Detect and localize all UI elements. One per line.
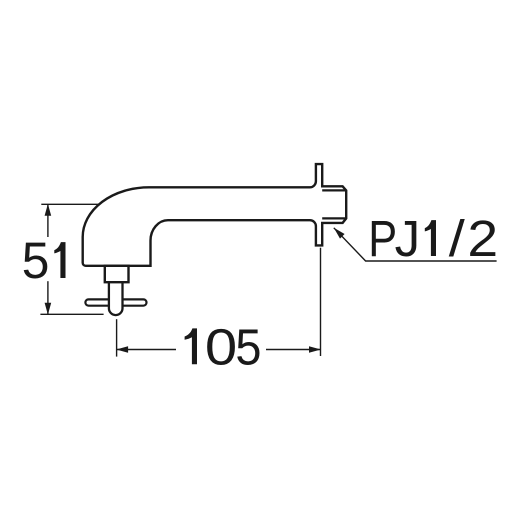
svg-text:J: J: [395, 210, 421, 267]
cross handle bar: [85, 299, 146, 305]
svg-text:2: 2: [467, 211, 498, 268]
label 105 digit 1: [185, 328, 197, 364]
dimension line 51 lower segment: [47, 281, 49, 314]
arrow 105 left: [116, 346, 128, 353]
svg-text:5: 5: [235, 320, 261, 376]
svg-text:5: 5: [22, 231, 50, 289]
arrow 105 right: [309, 346, 321, 353]
extension line bottom of 51: [40, 313, 103, 315]
extension line left of 105: [116, 319, 118, 356]
label thread size digit 1: [425, 220, 436, 256]
svg-text:P: P: [368, 211, 397, 268]
thread bevel bottom line: [322, 217, 346, 219]
dimension line 105 right segment: [266, 349, 321, 351]
spout body outline: [83, 164, 347, 266]
outlet tube: [109, 281, 123, 315]
leader arrowhead: [334, 228, 345, 239]
extension line right of 105: [320, 248, 322, 356]
thread bevel top line: [322, 189, 346, 191]
svg-text:0: 0: [205, 318, 237, 376]
dimension line 105 left segment: [117, 349, 176, 351]
dimension line 51 upper segment: [47, 204, 49, 237]
leader line PJ1/2: [334, 228, 497, 261]
label 51 digit 1: [54, 242, 65, 278]
arrow 51 top: [45, 204, 52, 216]
arrow 51 bottom: [45, 303, 52, 315]
neck block: [105, 266, 129, 282]
svg-text:/: /: [449, 210, 466, 267]
extension line top of 51: [41, 203, 99, 205]
